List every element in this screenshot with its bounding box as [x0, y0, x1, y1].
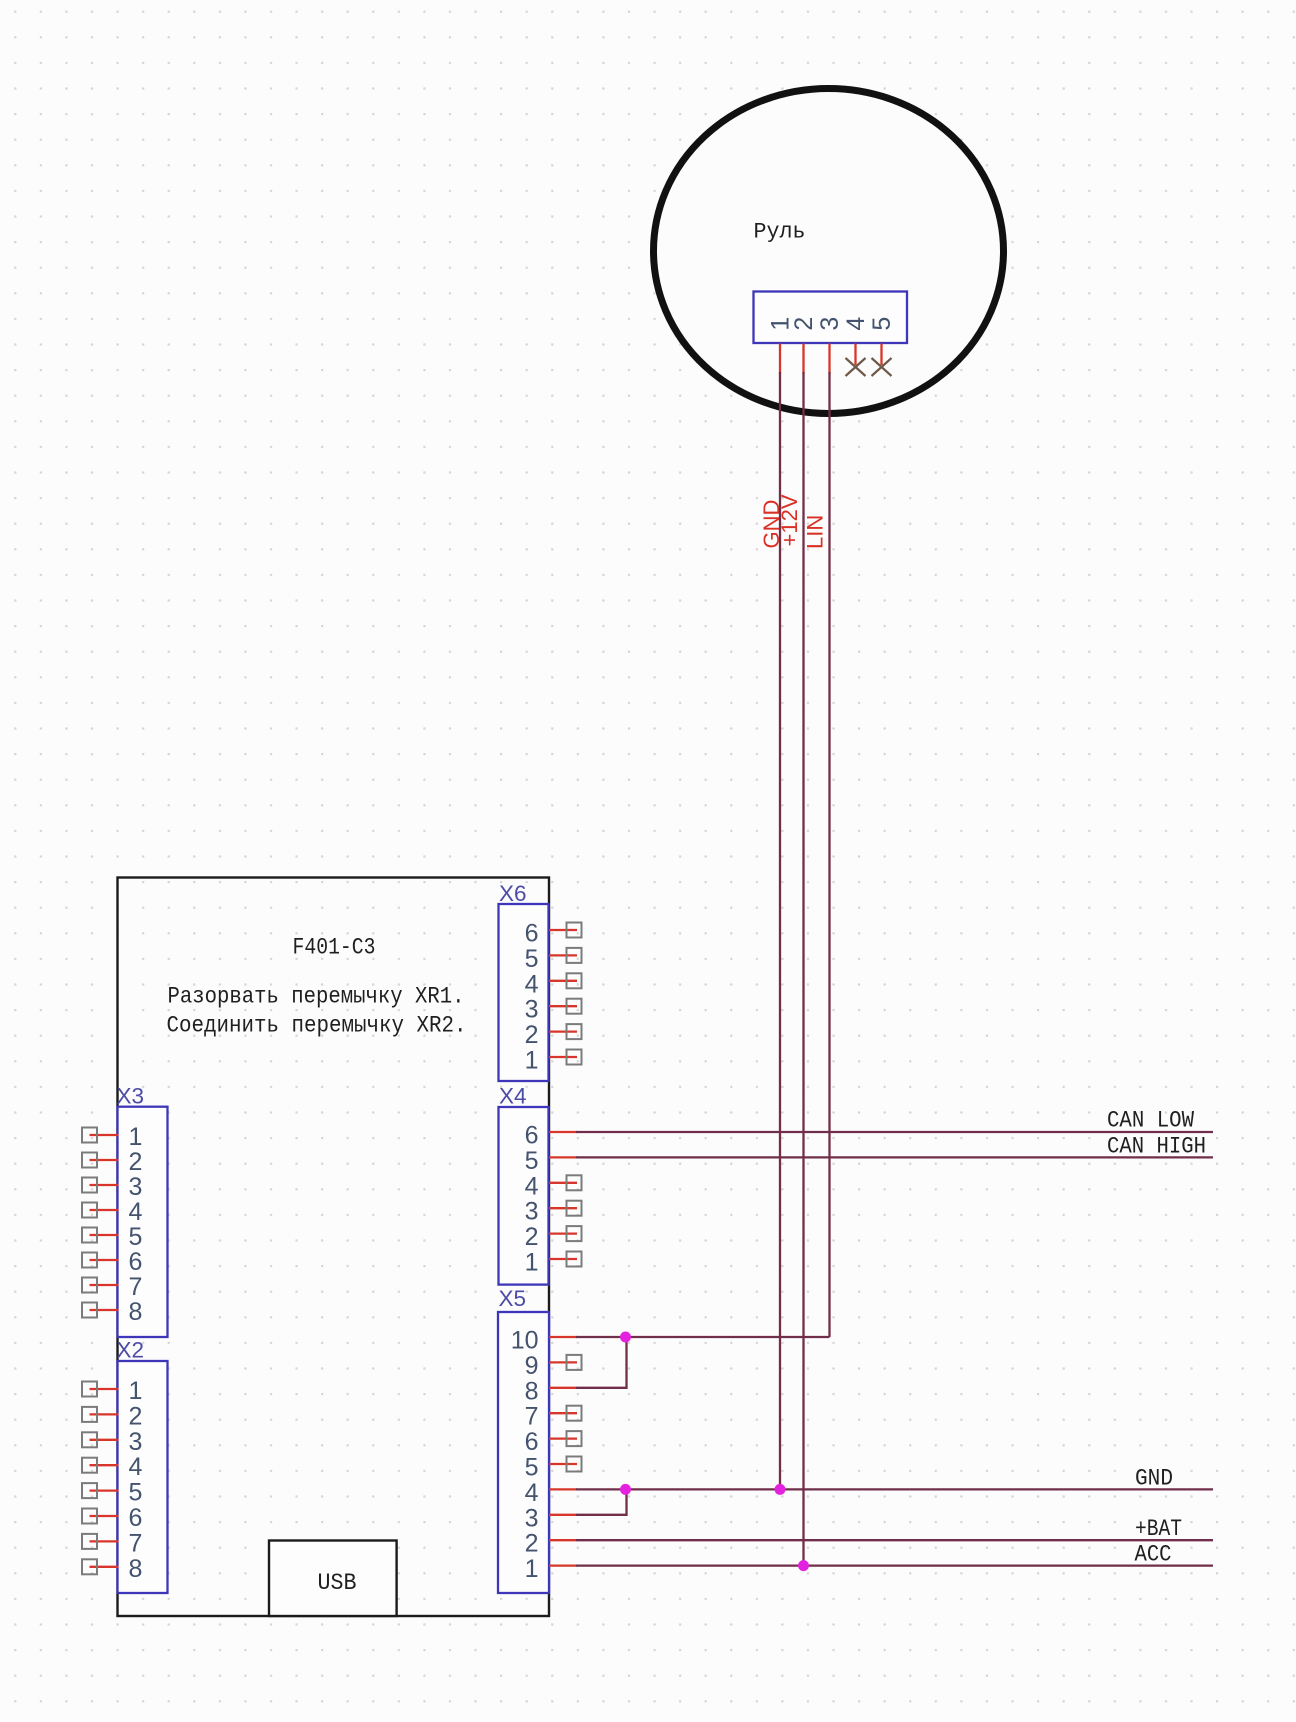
XS1 pin 1 stub — [779, 344, 781, 375]
connector X5 body — [498, 1312, 549, 1593]
svg-text:5: 5 — [525, 945, 539, 973]
svg-text:3: 3 — [129, 1173, 143, 1201]
svg-text:6: 6 — [129, 1504, 143, 1532]
USB connector box — [269, 1541, 397, 1617]
X5 pin 10 stub — [549, 1336, 577, 1338]
wire GND horizontal (X5.4 to right edge) — [576, 1488, 1213, 1490]
X3 pin 8 stub — [90, 1309, 119, 1311]
X5 pin 9 terminal square — [567, 1355, 582, 1370]
X3 pin 7 terminal square — [82, 1278, 97, 1293]
svg-text:6: 6 — [525, 1428, 539, 1456]
junction dot at X5.10 branch — [620, 1332, 631, 1343]
X5 pin 6 terminal square — [567, 1431, 582, 1446]
X6 pin 4 stub — [549, 980, 577, 982]
wire X5.10 to LIN vertical — [576, 1336, 830, 1338]
svg-text:5: 5 — [525, 1454, 539, 1482]
wire jumper X5.4 junction down to X5.3 — [576, 1489, 627, 1514]
X2 pin 1 terminal square — [82, 1382, 97, 1397]
svg-text:X6: X6 — [499, 881, 527, 906]
svg-text:3: 3 — [525, 1504, 539, 1532]
X3 pin 2 stub — [90, 1159, 119, 1161]
X4 pin 4 stub — [549, 1182, 577, 1184]
X3 pin 7 stub — [90, 1284, 119, 1286]
X6 pin 2 terminal square — [567, 1024, 582, 1039]
svg-text:4: 4 — [525, 970, 539, 998]
X3 pin 1 stub — [90, 1134, 119, 1136]
X5 pin 3 stub — [549, 1514, 577, 1516]
X3 pin 2 terminal square — [82, 1153, 97, 1168]
X4 pin 3 stub — [549, 1207, 577, 1209]
wire jumper X5.10 junction down to X5.8 — [576, 1337, 627, 1388]
X3 pin 3 stub — [90, 1184, 119, 1186]
svg-text:1: 1 — [525, 1249, 539, 1277]
X5 pin 7 terminal square — [567, 1406, 582, 1421]
svg-text:GND: GND — [1135, 1466, 1173, 1492]
svg-text:4: 4 — [525, 1479, 539, 1507]
X3 pin 6 stub — [90, 1259, 119, 1261]
svg-text:3: 3 — [816, 317, 844, 331]
svg-text:X4: X4 — [499, 1084, 527, 1109]
svg-text:6: 6 — [525, 1122, 539, 1150]
connector X4 body — [499, 1107, 549, 1285]
svg-text:X2: X2 — [117, 1338, 145, 1363]
X2 pin 1 stub — [90, 1388, 119, 1390]
X2 pin 7 stub — [90, 1540, 119, 1542]
X3 pin 4 terminal square — [82, 1203, 97, 1218]
svg-text:3: 3 — [525, 1198, 539, 1226]
svg-text:2: 2 — [790, 317, 818, 331]
X2 pin 6 terminal square — [82, 1509, 97, 1524]
X6 pin 6 terminal square — [567, 923, 582, 938]
X3 pin 8 terminal square — [82, 1303, 97, 1318]
svg-text:2: 2 — [129, 1402, 143, 1430]
wire ACC (X5.1 to right edge) — [576, 1564, 1213, 1566]
X5 pin 4 stub — [549, 1488, 577, 1490]
svg-text:CAN HIGH: CAN HIGH — [1107, 1134, 1206, 1160]
X5 pin 6 stub — [549, 1437, 577, 1439]
X3 pin 3 terminal square — [82, 1178, 97, 1193]
svg-text:+BAT: +BAT — [1135, 1516, 1182, 1542]
svg-text:4: 4 — [129, 1453, 143, 1481]
X5 pin 5 stub — [549, 1463, 577, 1465]
X4 pin 4 terminal square — [567, 1175, 582, 1190]
wire +12V net: XS1.2 down to X5.1 row — [802, 372, 804, 1566]
svg-text:3: 3 — [525, 996, 539, 1024]
junction dot +12V joins ACC — [798, 1560, 809, 1571]
svg-text:8: 8 — [129, 1555, 143, 1583]
svg-text:Руль: Руль — [754, 220, 806, 245]
svg-text:8: 8 — [129, 1298, 143, 1326]
connector X2 body — [118, 1361, 168, 1593]
X2 pin 8 stub — [90, 1566, 119, 1568]
no-connect X on XS1 pin 5 — [872, 358, 892, 376]
module F401-C3 outline — [118, 878, 550, 1617]
svg-text:X3: X3 — [117, 1084, 145, 1109]
X4 pin 3 terminal square — [567, 1201, 582, 1216]
X2 pin 2 terminal square — [82, 1407, 97, 1422]
svg-text:ACC: ACC — [1135, 1542, 1172, 1568]
svg-text:8: 8 — [525, 1377, 539, 1405]
X5 pin 7 stub — [549, 1412, 577, 1414]
X2 pin 2 stub — [90, 1413, 119, 1415]
svg-text:2: 2 — [129, 1148, 143, 1176]
svg-text:7: 7 — [129, 1273, 143, 1301]
wire LIN net: XS1.3 down to X5.10 row — [828, 372, 830, 1337]
X5 pin 8 stub — [549, 1387, 577, 1389]
svg-text:10: 10 — [511, 1327, 539, 1355]
X2 pin 3 stub — [90, 1439, 119, 1441]
svg-text:2: 2 — [525, 1223, 539, 1251]
X6 pin 3 terminal square — [567, 999, 582, 1014]
X2 pin 5 stub — [90, 1489, 119, 1491]
XS1 pin 3 stub — [828, 344, 830, 375]
connector X3 body — [118, 1107, 168, 1337]
svg-text:2: 2 — [525, 1530, 539, 1558]
svg-text:6: 6 — [525, 920, 539, 948]
connector XS1 (steering wheel) body — [754, 292, 908, 344]
wire GND net: XS1.1 down to X5.4 row — [779, 372, 781, 1489]
X6 pin 2 stub — [549, 1030, 577, 1032]
svg-text:1: 1 — [525, 1047, 539, 1075]
X4 pin 2 stub — [549, 1232, 577, 1234]
svg-text:4: 4 — [129, 1198, 143, 1226]
svg-text:7: 7 — [525, 1403, 539, 1431]
XS1 pin 2 stub — [802, 344, 804, 375]
svg-text:1: 1 — [525, 1555, 539, 1583]
svg-text:2: 2 — [525, 1021, 539, 1049]
X4 pin 1 terminal square — [567, 1252, 582, 1267]
X3 pin 6 terminal square — [82, 1253, 97, 1268]
svg-text:4: 4 — [842, 317, 870, 331]
svg-text:USB: USB — [318, 1570, 357, 1596]
X2 pin 3 terminal square — [82, 1432, 97, 1447]
steering wheel circle (Руль) — [654, 89, 1004, 414]
junction dot at X5.4 branch — [620, 1484, 631, 1495]
svg-text:7: 7 — [129, 1529, 143, 1557]
svg-text:6: 6 — [129, 1248, 143, 1276]
wire CAN LOW (X4.6 to right edge) — [576, 1131, 1213, 1133]
X2 pin 4 terminal square — [82, 1458, 97, 1473]
svg-text:1: 1 — [129, 1123, 143, 1151]
X6 pin 6 stub — [549, 929, 577, 931]
X4 pin 6 stub — [549, 1131, 577, 1133]
X6 pin 1 stub — [549, 1056, 577, 1058]
X5 pin 1 stub — [549, 1564, 577, 1566]
X6 pin 3 stub — [549, 1005, 577, 1007]
X6 pin 1 terminal square — [567, 1050, 582, 1065]
connector X6 body — [499, 904, 549, 1081]
svg-text:5: 5 — [129, 1479, 143, 1507]
X5 pin 5 terminal square — [567, 1457, 582, 1472]
XS1 pin 4 stub — [854, 344, 856, 366]
X5 pin 2 stub — [549, 1539, 577, 1541]
X3 pin 4 stub — [90, 1209, 119, 1211]
wire CAN HIGH (X4.5 to right edge) — [576, 1156, 1213, 1158]
X6 pin 5 terminal square — [567, 948, 582, 963]
svg-text:4: 4 — [525, 1172, 539, 1200]
X4 pin 1 stub — [549, 1258, 577, 1260]
svg-text:CAN LOW: CAN LOW — [1107, 1108, 1194, 1134]
X2 pin 5 terminal square — [82, 1483, 97, 1498]
svg-text:Соединить перемычку XR2.: Соединить перемычку XR2. — [167, 1013, 467, 1039]
X2 pin 8 terminal square — [82, 1559, 97, 1574]
svg-text:5: 5 — [129, 1223, 143, 1251]
X5 pin 9 stub — [549, 1361, 577, 1363]
wire +BAT (X5.2 to right edge) — [576, 1539, 1213, 1541]
svg-text:F401-C3: F401-C3 — [293, 935, 376, 961]
X6 pin 4 terminal square — [567, 973, 582, 988]
no-connect X on XS1 pin 4 — [846, 358, 866, 376]
X3 pin 5 stub — [90, 1234, 119, 1236]
svg-text:3: 3 — [129, 1428, 143, 1456]
svg-text:1: 1 — [129, 1377, 143, 1405]
X3 pin 5 terminal square — [82, 1228, 97, 1243]
svg-text:Разорвать перемычку XR1.: Разорвать перемычку XR1. — [168, 983, 465, 1009]
junction dot GND vertical joins GND horizontal — [775, 1484, 786, 1495]
svg-text:X5: X5 — [499, 1286, 527, 1311]
svg-text:5: 5 — [525, 1147, 539, 1175]
X2 pin 4 stub — [90, 1464, 119, 1466]
svg-text:+12V: +12V — [777, 494, 802, 546]
X4 pin 2 terminal square — [567, 1226, 582, 1241]
X2 pin 6 stub — [90, 1515, 119, 1517]
svg-text:LIN: LIN — [803, 515, 828, 549]
X3 pin 1 terminal square — [82, 1128, 97, 1143]
X4 pin 5 stub — [549, 1156, 577, 1158]
svg-text:5: 5 — [868, 317, 896, 331]
X6 pin 5 stub — [549, 954, 577, 956]
X2 pin 7 terminal square — [82, 1534, 97, 1549]
XS1 pin 5 stub — [880, 344, 882, 366]
svg-text:9: 9 — [525, 1352, 539, 1380]
